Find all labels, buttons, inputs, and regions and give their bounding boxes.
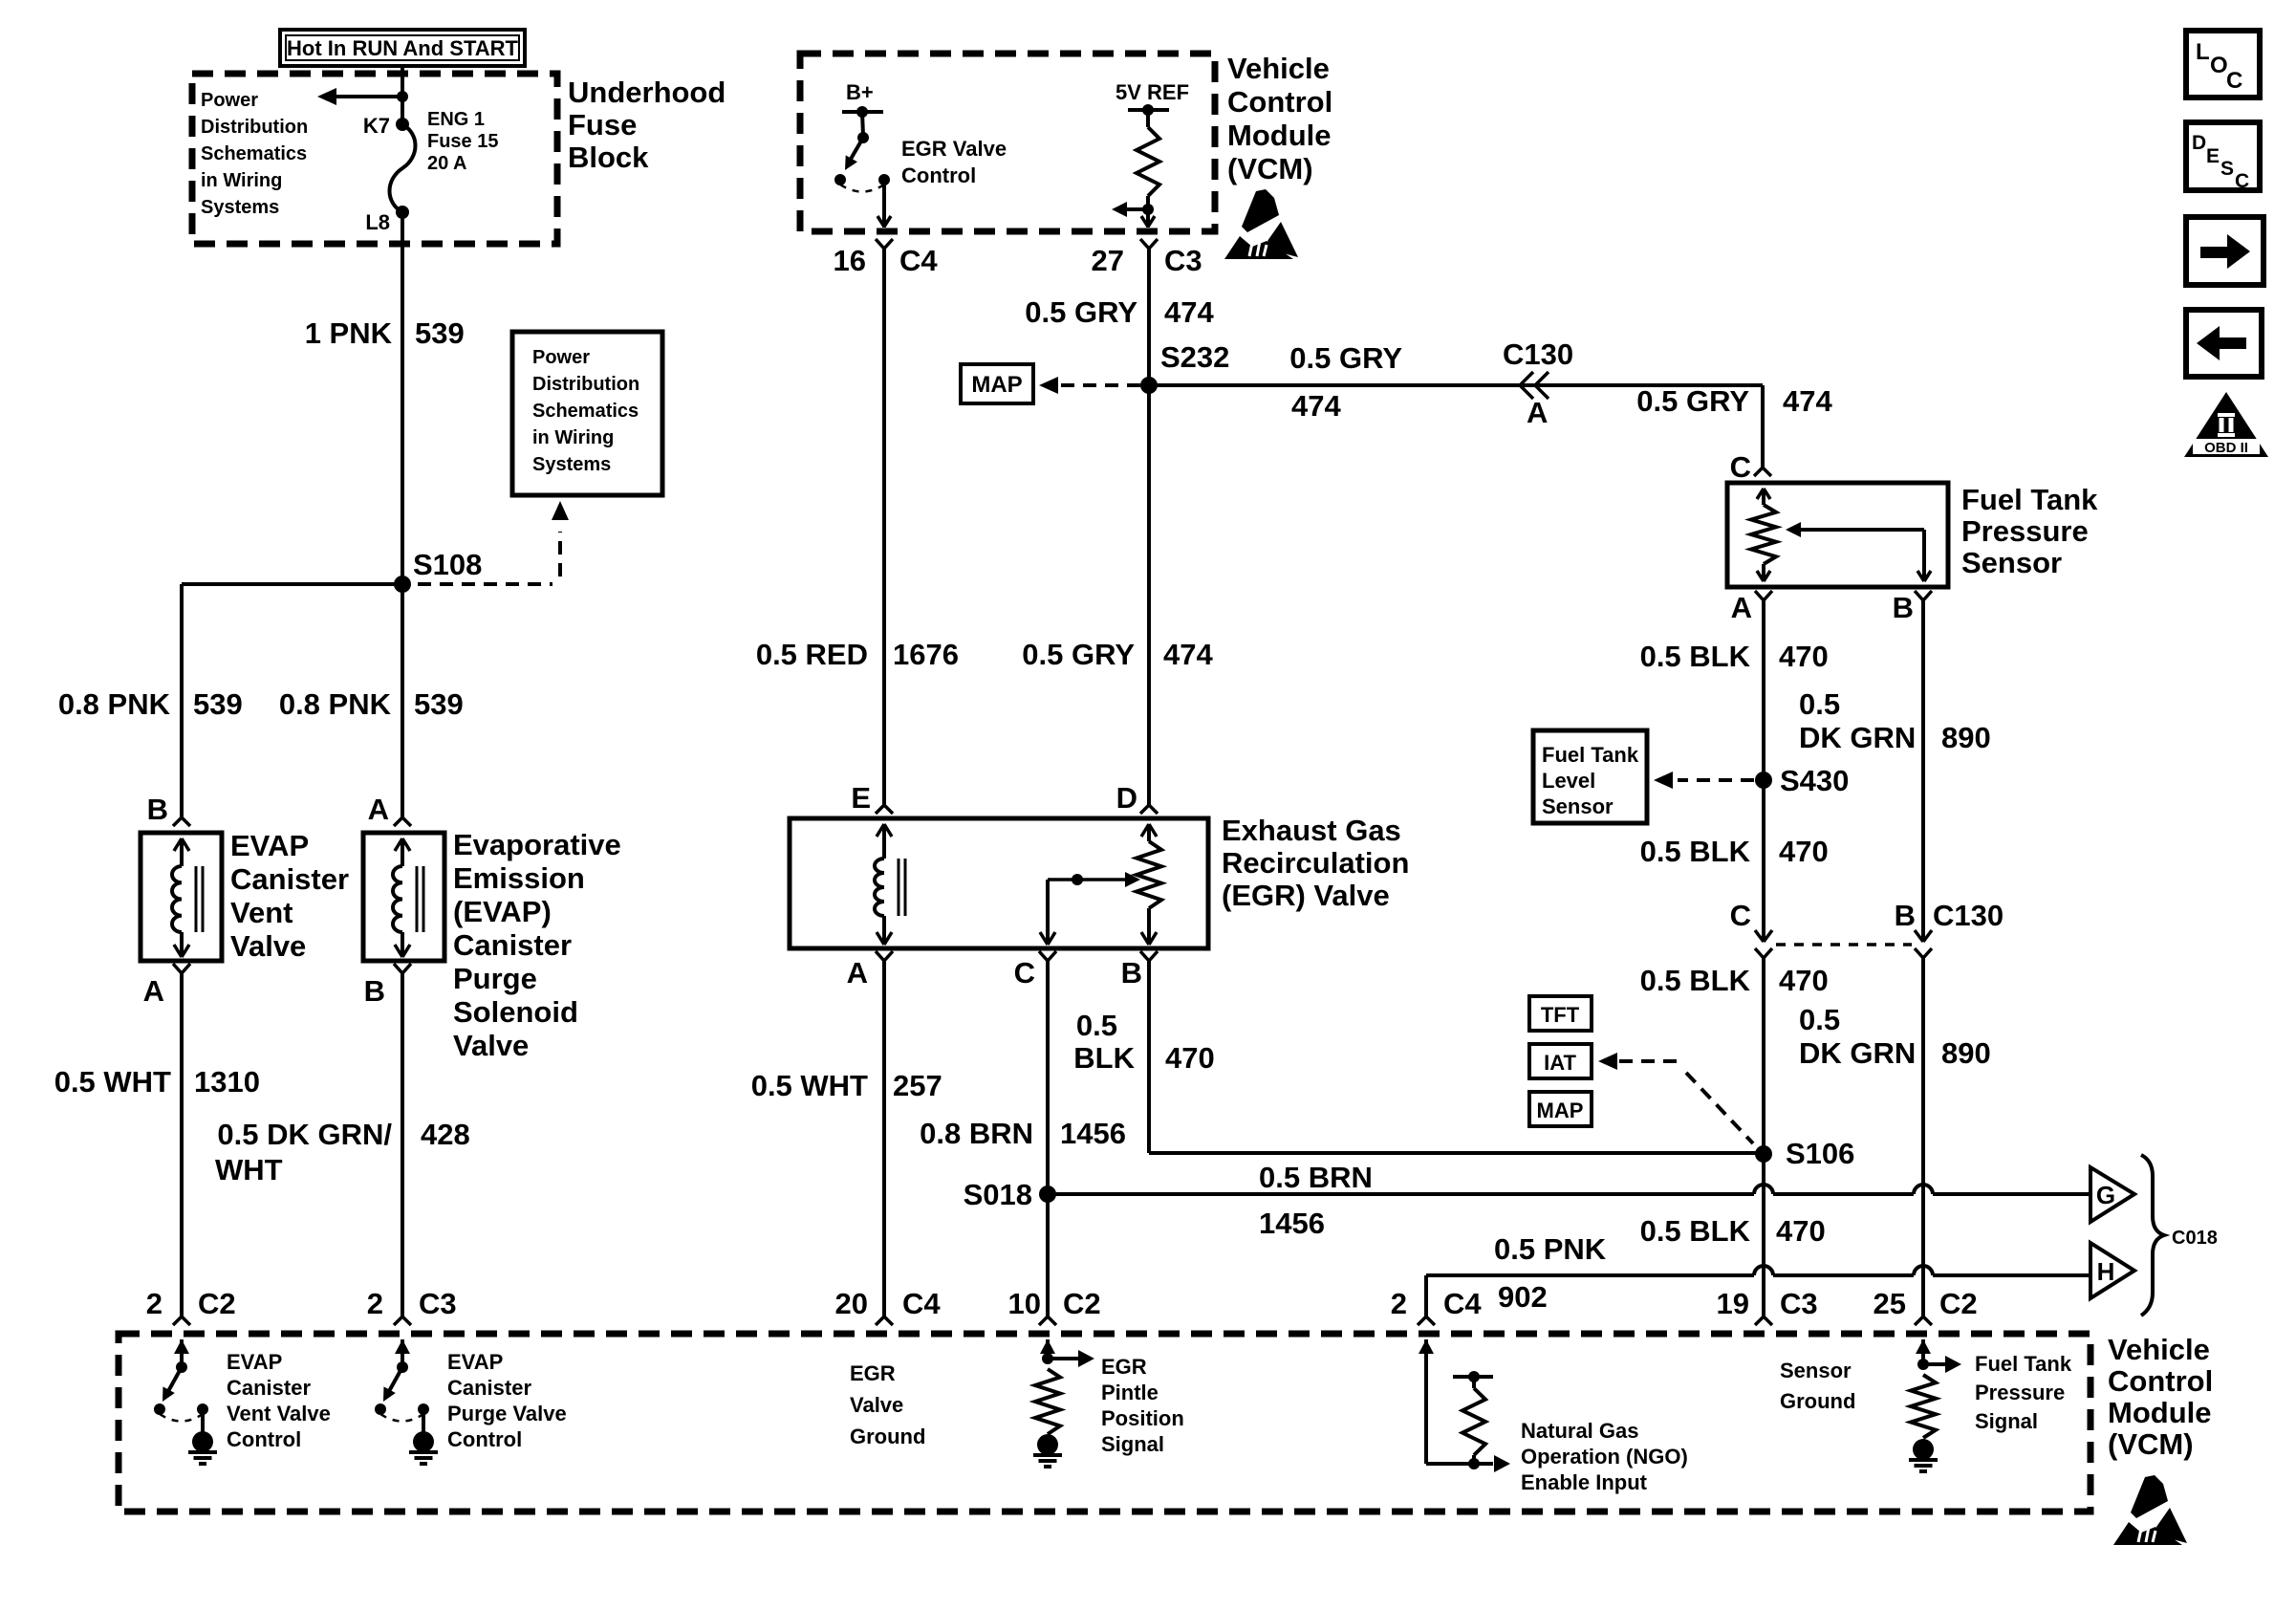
svg-text:(EGR) Valve: (EGR) Valve <box>1222 879 1390 912</box>
label 0.5 RED 1676 <box>756 638 959 671</box>
connector label 2 C2 <box>146 1287 236 1320</box>
FTPS wiper <box>1786 522 1931 581</box>
natural gas operation text <box>1521 1419 1688 1494</box>
EGR pintle position signal input <box>1033 1339 1094 1467</box>
svg-text:MAP: MAP <box>971 372 1022 398</box>
svg-text:EVAP: EVAP <box>230 829 309 862</box>
label 0.5 BRN over wire <box>1259 1161 1373 1194</box>
Underhood Fuse Block title text <box>568 76 726 174</box>
label 902 <box>1498 1280 1548 1314</box>
label 0.5 GRY over wire <box>1289 341 1402 375</box>
svg-text:257: 257 <box>893 1069 942 1102</box>
svg-text:B: B <box>1895 899 1916 932</box>
EVAP canister purge valve control text <box>447 1350 567 1451</box>
svg-text:20: 20 <box>835 1287 868 1320</box>
svg-text:Schematics: Schematics <box>532 401 639 422</box>
svg-text:Vent Valve: Vent Valve <box>227 1402 331 1425</box>
wire S018 to connector G (0.5 BRN 1456) <box>1048 1185 2090 1194</box>
5V REF pull-up resistor <box>1112 104 1169 228</box>
MAP reference box <box>961 364 1033 403</box>
svg-text:0.5 BRN: 0.5 BRN <box>1259 1161 1373 1194</box>
label C130 (top) <box>1503 337 1573 371</box>
svg-text:Distribution: Distribution <box>532 374 639 395</box>
sensor ground text <box>1780 1359 1855 1413</box>
svg-text:S: S <box>2220 158 2234 180</box>
svg-text:Systems: Systems <box>532 454 611 475</box>
EVAP canister vent valve box <box>141 833 222 961</box>
svg-text:474: 474 <box>1164 295 1214 329</box>
svg-text:TFT: TFT <box>1541 1003 1580 1027</box>
label 0.5 GRY 474 right of C130 <box>1636 384 1832 418</box>
IAT reference box <box>1529 1044 1592 1078</box>
svg-text:S430: S430 <box>1780 764 1849 797</box>
svg-text:Power: Power <box>201 90 258 111</box>
fuse ENG 1 Fuse 15 20A <box>390 118 416 219</box>
label 0.8 PNK 539 (left) <box>58 687 243 721</box>
label 0.5 WHT 1310 <box>54 1065 260 1099</box>
svg-text:Valve: Valve <box>230 929 306 963</box>
dashed arrow S232 to MAP <box>1039 377 1140 394</box>
svg-text:C4: C4 <box>902 1287 941 1320</box>
svg-text:10: 10 <box>1008 1287 1041 1320</box>
svg-text:0.8 BRN: 0.8 BRN <box>920 1117 1033 1150</box>
EGR pintle position potentiometer <box>1137 824 1161 945</box>
svg-text:C4: C4 <box>1443 1287 1482 1320</box>
svg-text:OBD II: OBD II <box>2204 440 2248 456</box>
arrow to power distribution schematics (left) <box>317 88 408 105</box>
svg-text:S018: S018 <box>964 1178 1032 1211</box>
label 1 PNK 539 <box>305 316 465 350</box>
svg-text:Ground: Ground <box>1780 1389 1855 1413</box>
pin label E <box>851 781 871 815</box>
svg-text:A: A <box>368 793 389 826</box>
svg-text:Pressure: Pressure <box>1961 514 2089 548</box>
svg-text:0.5 WHT: 0.5 WHT <box>751 1069 868 1102</box>
splice S430 <box>1755 764 1849 797</box>
svg-text:C3: C3 <box>1164 244 1202 277</box>
svg-text:539: 539 <box>193 687 243 721</box>
wire vent valve to VCM pin 2 C2 <box>173 964 190 1325</box>
pin label B (FTPS) <box>1893 591 1914 624</box>
fuel tank pressure sensor box <box>1727 483 1948 587</box>
label 0.5 DK GRN 890 (1) <box>1799 687 1991 754</box>
svg-text:(EVAP): (EVAP) <box>453 895 552 928</box>
VCM (bottom) dashed outline <box>119 1334 2090 1512</box>
svg-text:Vehicle: Vehicle <box>2108 1333 2210 1366</box>
svg-text:EGR: EGR <box>1101 1355 1147 1379</box>
purge valve label <box>453 828 621 1062</box>
Hot In RUN And START title box <box>280 30 525 66</box>
svg-text:C: C <box>2235 170 2249 192</box>
svg-text:Purge Valve: Purge Valve <box>447 1402 567 1425</box>
svg-text:Block: Block <box>568 141 649 174</box>
vent valve solenoid coil <box>172 838 203 957</box>
svg-text:(VCM): (VCM) <box>1227 152 1313 185</box>
dashed reference arrow S108 to Power Distribution box <box>418 501 569 584</box>
svg-text:0.5 GRY: 0.5 GRY <box>1025 295 1137 329</box>
EVAP canister vent valve control text <box>227 1350 331 1451</box>
svg-text:B+: B+ <box>846 80 874 104</box>
svg-text:539: 539 <box>415 316 465 350</box>
svg-text:Fuel Tank: Fuel Tank <box>1542 743 1639 767</box>
svg-text:Canister: Canister <box>447 1376 531 1400</box>
svg-text:0.5: 0.5 <box>1799 687 1840 721</box>
svg-text:Fuel Tank: Fuel Tank <box>1961 483 2098 516</box>
svg-text:2: 2 <box>1391 1287 1407 1320</box>
svg-text:DK GRN: DK GRN <box>1799 721 1916 754</box>
svg-text:S106: S106 <box>1786 1137 1854 1170</box>
svg-text:A: A <box>143 974 164 1008</box>
svg-text:0.5 RED: 0.5 RED <box>756 638 868 671</box>
wire EGR C to S018 <box>1039 951 1056 1194</box>
pin label C (FTPS) <box>1730 450 1751 484</box>
label 0.5 DK GRN/ WHT 428 <box>215 1118 470 1186</box>
svg-text:1310: 1310 <box>194 1065 260 1099</box>
svg-text:470: 470 <box>1776 1214 1826 1248</box>
pin label B (purge valve) <box>364 974 385 1008</box>
fuse terminal label L8 <box>365 210 390 234</box>
svg-text:EVAP: EVAP <box>447 1350 503 1374</box>
EGR valve label <box>1222 814 1409 912</box>
svg-text:Level: Level <box>1542 769 1595 793</box>
svg-text:20 A: 20 A <box>427 153 467 174</box>
svg-text:C: C <box>1014 956 1035 990</box>
svg-text:C: C <box>1730 450 1751 484</box>
svg-text:Control: Control <box>447 1427 522 1451</box>
svg-text:C3: C3 <box>419 1287 457 1320</box>
EGR valve box <box>790 818 1208 948</box>
inline connector C130 (C/B) dashed line <box>1776 943 1912 946</box>
svg-text:(VCM): (VCM) <box>2108 1427 2194 1461</box>
fuse value text <box>427 109 498 174</box>
svg-text:Control: Control <box>2108 1364 2213 1398</box>
label 0.5 BLK 470 (1) <box>1640 640 1829 673</box>
svg-text:1676: 1676 <box>893 638 959 671</box>
svg-text:25: 25 <box>1874 1287 1906 1320</box>
svg-text:C3: C3 <box>1780 1287 1818 1320</box>
EVAP canister purge valve control driver <box>375 1339 438 1464</box>
svg-text:1456: 1456 <box>1060 1117 1126 1150</box>
connector triangle H <box>2090 1243 2134 1298</box>
FTPS potentiometer <box>1751 489 1776 581</box>
fuel tank level sensor box <box>1533 730 1647 823</box>
svg-text:Canister: Canister <box>230 862 349 896</box>
wire S232 to C130 to fuel tank pressure sensor <box>1149 385 1771 476</box>
svg-text:B: B <box>1121 956 1142 990</box>
pin label A (vent valve) <box>143 974 164 1008</box>
svg-text:27: 27 <box>1092 244 1124 277</box>
svg-text:0.8 PNK: 0.8 PNK <box>279 687 392 721</box>
wire VCM C3-27 to S232 <box>1147 249 1151 385</box>
wire EGR B down and right to S106 <box>1140 951 1764 1153</box>
svg-text:IAT: IAT <box>1544 1051 1576 1075</box>
icon OBD II triangle <box>2184 392 2268 457</box>
svg-text:B: B <box>147 793 168 826</box>
icon DESC <box>2186 122 2260 192</box>
svg-text:EVAP: EVAP <box>227 1350 282 1374</box>
wire S108 to purge valve <box>394 584 411 826</box>
label 0.5 DK GRN 890 (2) <box>1799 1003 1991 1070</box>
EVAP canister purge solenoid valve box <box>363 833 444 961</box>
svg-text:2: 2 <box>367 1287 383 1320</box>
svg-text:Underhood: Underhood <box>568 76 726 109</box>
label 0.5 GRY 474 (mid) <box>1022 638 1213 671</box>
svg-text:B: B <box>364 974 385 1008</box>
svg-text:0.5 WHT: 0.5 WHT <box>54 1065 171 1099</box>
dashed arrow S106 to IAT <box>1598 1053 1753 1143</box>
svg-text:in Wiring: in Wiring <box>201 170 282 191</box>
EVAP canister vent valve control driver <box>154 1339 217 1464</box>
svg-text:L: L <box>2196 39 2210 65</box>
label 0.8 PNK 539 (right) <box>279 687 464 721</box>
svg-text:Canister: Canister <box>453 928 572 962</box>
connector triangle G <box>2090 1167 2134 1222</box>
svg-text:C130: C130 <box>1503 337 1573 371</box>
svg-text:Control: Control <box>227 1427 301 1451</box>
svg-text:C130: C130 <box>1933 899 2004 932</box>
connector 16 C4 below VCM <box>834 239 939 277</box>
label C (C130 inline) <box>1730 899 1751 932</box>
svg-text:0.5 PNK: 0.5 PNK <box>1494 1232 1607 1266</box>
connector label 2 C4 (NGO) <box>1391 1287 1483 1320</box>
svg-text:Sensor: Sensor <box>1542 794 1614 818</box>
EGR valve solenoid coil <box>875 824 905 945</box>
label 0.5 PNK <box>1494 1232 1607 1266</box>
label 0.5 GRY 474 (top) <box>1025 295 1214 329</box>
svg-text:WHT: WHT <box>215 1153 283 1186</box>
svg-text:Purge: Purge <box>453 962 537 995</box>
svg-text:S232: S232 <box>1160 340 1229 374</box>
svg-text:1 PNK: 1 PNK <box>305 316 393 350</box>
svg-text:A: A <box>847 956 868 990</box>
svg-text:0.8 PNK: 0.8 PNK <box>58 687 171 721</box>
pin label C (EGR) <box>1014 956 1035 990</box>
svg-text:S108: S108 <box>413 548 482 581</box>
fuse terminal label K7 <box>363 114 390 138</box>
wire S018 to VCM 10 C2 <box>1039 1194 1056 1325</box>
inline connector C130 chevrons <box>1520 372 1549 399</box>
svg-text:474: 474 <box>1291 389 1341 423</box>
svg-text:470: 470 <box>1779 640 1829 673</box>
svg-text:539: 539 <box>414 687 464 721</box>
label 0.5 BLK 470 (3) <box>1640 964 1829 997</box>
svg-text:5V REF: 5V REF <box>1116 80 1189 104</box>
Power Distribution Schematics box <box>512 332 662 495</box>
EGR valve control driver switch <box>834 106 891 228</box>
svg-text:470: 470 <box>1779 835 1829 868</box>
svg-text:890: 890 <box>1941 1036 1991 1070</box>
svg-text:902: 902 <box>1498 1280 1548 1314</box>
svg-text:Control: Control <box>901 163 976 187</box>
svg-text:H: H <box>2097 1257 2115 1286</box>
NGO enable input circuit <box>1419 1339 1510 1472</box>
svg-text:Exhaust Gas: Exhaust Gas <box>1222 814 1401 847</box>
splice S108 <box>394 548 482 593</box>
MAP reference box (lower) <box>1529 1092 1592 1126</box>
svg-text:Recirculation: Recirculation <box>1222 846 1409 880</box>
svg-text:0.5 GRY: 0.5 GRY <box>1289 341 1402 375</box>
svg-text:Fuse: Fuse <box>568 108 637 141</box>
svg-text:C018: C018 <box>2172 1228 2218 1249</box>
svg-text:C2: C2 <box>1063 1287 1101 1320</box>
svg-text:Pressure: Pressure <box>1975 1381 2065 1404</box>
TFT reference box <box>1529 996 1592 1031</box>
svg-text:O: O <box>2210 53 2228 78</box>
label 0.5 BLK 470 (2) <box>1640 835 1829 868</box>
svg-text:L8: L8 <box>365 210 390 234</box>
svg-text:Control: Control <box>1227 85 1332 119</box>
svg-text:Signal: Signal <box>1975 1409 2038 1433</box>
wire EGR A to VCM 20 C4 <box>876 951 893 1325</box>
svg-text:Power: Power <box>532 347 590 368</box>
svg-text:0.5 BLK: 0.5 BLK <box>1640 1214 1751 1248</box>
wire VCM C4-16 to EGR valve pin E <box>876 249 893 814</box>
pin label D <box>1116 781 1137 815</box>
svg-text:K7: K7 <box>363 114 390 138</box>
fuel tank pressure sensor label <box>1961 483 2098 579</box>
svg-text:19: 19 <box>1717 1287 1749 1320</box>
svg-text:Signal: Signal <box>1101 1432 1164 1456</box>
svg-text:Schematics: Schematics <box>201 143 307 164</box>
svg-text:Module: Module <box>2108 1396 2212 1429</box>
svg-text:C2: C2 <box>198 1287 236 1320</box>
svg-text:0.5: 0.5 <box>1076 1009 1117 1042</box>
pin label A (EGR) <box>847 956 868 990</box>
icon forward arrow <box>2186 217 2264 285</box>
wire title box to fuse <box>401 66 404 124</box>
pin label A (purge valve) <box>368 793 389 826</box>
svg-text:0.5 BLK: 0.5 BLK <box>1640 964 1751 997</box>
label 0.5 BLK 470 (4) <box>1640 1214 1826 1248</box>
EGR wiper from pin C <box>1040 872 1140 945</box>
wire NGO 2 C4 to connector H (0.5 PNK 902) <box>1418 1266 2090 1325</box>
label A (C130) <box>1527 396 1548 429</box>
svg-text:D: D <box>2192 132 2206 154</box>
svg-text:EGR: EGR <box>850 1361 896 1385</box>
wire S108 to left branch <box>182 582 404 586</box>
svg-text:A: A <box>1731 591 1752 624</box>
pin label A (FTPS) <box>1731 591 1752 624</box>
icon LOC <box>2186 31 2260 98</box>
ESD sensitivity symbol (top VCM) <box>1224 189 1298 259</box>
power distribution note text (fuse block) <box>201 90 308 218</box>
svg-text:C: C <box>1730 899 1751 932</box>
splice S106 <box>1755 1137 1854 1170</box>
svg-text:474: 474 <box>1783 384 1832 418</box>
icon back arrow <box>2186 310 2262 377</box>
splice S232 <box>1140 340 1229 394</box>
svg-text:428: 428 <box>421 1118 470 1151</box>
connector 27 C3 below VCM <box>1092 239 1202 277</box>
pin label B (EGR) <box>1121 956 1142 990</box>
svg-text:in Wiring: in Wiring <box>532 427 614 448</box>
svg-text:474: 474 <box>1163 638 1213 671</box>
wire S430 to C130 pin C <box>1755 780 1772 942</box>
wire S232 to EGR valve pin D <box>1140 385 1158 814</box>
svg-text:Fuel Tank: Fuel Tank <box>1975 1352 2072 1376</box>
svg-text:Position: Position <box>1101 1406 1184 1430</box>
svg-text:Valve: Valve <box>850 1393 903 1417</box>
svg-text:Evaporative: Evaporative <box>453 828 621 861</box>
svg-text:D: D <box>1116 781 1137 815</box>
svg-text:EGR Valve: EGR Valve <box>901 137 1007 161</box>
svg-text:A: A <box>1527 396 1548 429</box>
wire fuse to S108 <box>401 212 404 584</box>
label 1456 under wire <box>1259 1207 1325 1240</box>
label 474 under wire <box>1291 389 1341 423</box>
ESD sensitivity symbol (bottom VCM) <box>2113 1475 2187 1545</box>
EGR pintle position signal text <box>1101 1355 1184 1456</box>
svg-text:E: E <box>851 781 871 815</box>
EVAP canister vent valve label <box>230 829 349 963</box>
svg-text:C: C <box>2226 68 2242 94</box>
svg-text:0.5 BLK: 0.5 BLK <box>1640 835 1751 868</box>
svg-text:Ground: Ground <box>850 1425 925 1448</box>
dashed arrow S430 to fuel tank level sensor <box>1654 772 1754 789</box>
svg-text:G: G <box>2096 1181 2115 1209</box>
fuel tank pressure signal text <box>1975 1352 2072 1433</box>
svg-text:Sensor: Sensor <box>1961 546 2062 579</box>
svg-text:470: 470 <box>1165 1041 1215 1075</box>
connector label 10 C2 <box>1008 1287 1101 1320</box>
svg-text:Solenoid: Solenoid <box>453 995 578 1029</box>
connector label 19 C3 <box>1717 1287 1818 1320</box>
connector label 2 C3 <box>367 1287 457 1320</box>
svg-text:Valve: Valve <box>453 1029 529 1062</box>
svg-text:2: 2 <box>146 1287 162 1320</box>
svg-text:MAP: MAP <box>1537 1099 1584 1122</box>
wire S106 to VCM 19 C3 <box>1755 1154 1772 1325</box>
wire down to EVAP vent valve <box>173 584 190 826</box>
wire purge valve to VCM pin 2 C3 <box>394 964 411 1325</box>
wire C130 C to S106 <box>1755 948 1772 1154</box>
svg-text:0.5 GRY: 0.5 GRY <box>1022 638 1135 671</box>
label 0.5 BLK 470 (EGR B) <box>1073 1009 1214 1075</box>
svg-text:Enable Input: Enable Input <box>1521 1470 1648 1494</box>
svg-text:470: 470 <box>1779 964 1829 997</box>
VCM (top) title text <box>1227 52 1332 185</box>
svg-text:Emission: Emission <box>453 861 585 895</box>
svg-text:16: 16 <box>834 244 866 277</box>
svg-text:890: 890 <box>1941 721 1991 754</box>
VCM (bottom) title text <box>2108 1333 2213 1461</box>
label B C130 (inline) <box>1895 899 2004 932</box>
wire FTPS B to C130 pin B <box>1915 591 1932 942</box>
connector label 25 C2 <box>1874 1287 1978 1320</box>
wire C130 B to VCM 25 C2 <box>1915 948 1932 1325</box>
Underhood Fuse Block dashed outline <box>192 74 557 244</box>
svg-text:Systems: Systems <box>201 197 279 218</box>
svg-text:E: E <box>2206 145 2220 167</box>
VCM (top) dashed outline <box>800 54 1215 231</box>
brace and label C018 <box>2141 1155 2218 1316</box>
svg-text:Vehicle: Vehicle <box>1227 52 1330 85</box>
svg-text:B: B <box>1893 591 1914 624</box>
svg-text:0.5: 0.5 <box>1799 1003 1840 1036</box>
svg-text:Hot In RUN And START: Hot In RUN And START <box>287 36 519 60</box>
label 0.8 BRN 1456 <box>920 1117 1126 1150</box>
svg-text:BLK: BLK <box>1073 1041 1135 1075</box>
svg-text:Natural Gas: Natural Gas <box>1521 1419 1639 1443</box>
svg-text:0.5 GRY: 0.5 GRY <box>1636 384 1749 418</box>
svg-text:1456: 1456 <box>1259 1207 1325 1240</box>
svg-text:Sensor: Sensor <box>1780 1359 1852 1382</box>
svg-text:Vent: Vent <box>230 896 292 929</box>
purge valve solenoid coil <box>393 838 423 957</box>
label 0.5 WHT 257 <box>751 1069 942 1102</box>
wire FTPS A to S430 <box>1755 591 1772 780</box>
EGR valve ground text <box>850 1361 925 1448</box>
